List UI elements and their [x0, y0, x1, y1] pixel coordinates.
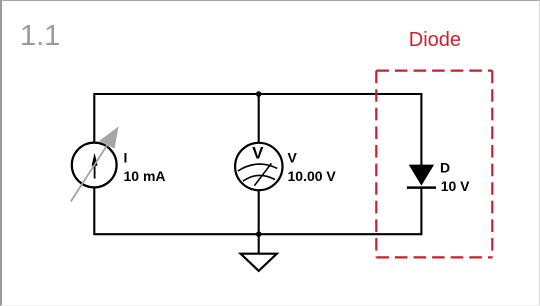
svg-text:D: D [440, 160, 450, 176]
wire left branch lower [93, 188, 95, 236]
voltmeter needle [254, 163, 271, 185]
wire left branch upper [93, 93, 95, 143]
annotation box (red dashed) [376, 71, 492, 258]
diode cathode bar [407, 186, 436, 189]
junction bottom [256, 231, 262, 237]
wire top (node 1) [94, 93, 421, 95]
wire middle branch upper [258, 94, 260, 143]
wire ground stub [258, 234, 260, 254]
junction top [256, 91, 262, 97]
svg-text:10.00 V: 10.00 V [288, 168, 337, 184]
svg-text:Diode: Diode [409, 29, 461, 51]
wire right branch lower [420, 187, 422, 236]
wire right branch upper [420, 93, 422, 166]
svg-text:10 mA: 10 mA [124, 168, 166, 184]
svg-text:V: V [252, 144, 264, 163]
label I / 10 mA [124, 149, 166, 184]
voltmeter scale arc upper [238, 164, 277, 171]
voltmeter U1 body [235, 143, 282, 190]
current source arrow [92, 153, 98, 179]
variable (adjust) gray arrow [71, 126, 119, 201]
current source I1 body [72, 143, 117, 188]
wire bottom (node 0) [94, 233, 421, 235]
diode D1 triangle [409, 165, 434, 186]
wire middle branch lower [258, 190, 260, 234]
svg-text:10 V: 10 V [441, 178, 470, 194]
svg-text:1.1: 1.1 [20, 20, 60, 52]
svg-text:I: I [124, 149, 128, 165]
label D / 10 V [440, 160, 470, 194]
label V / 10.00 V [288, 149, 337, 184]
ground symbol [241, 254, 277, 271]
svg-text:V: V [288, 149, 298, 165]
voltmeter scale arc lower [243, 175, 275, 181]
